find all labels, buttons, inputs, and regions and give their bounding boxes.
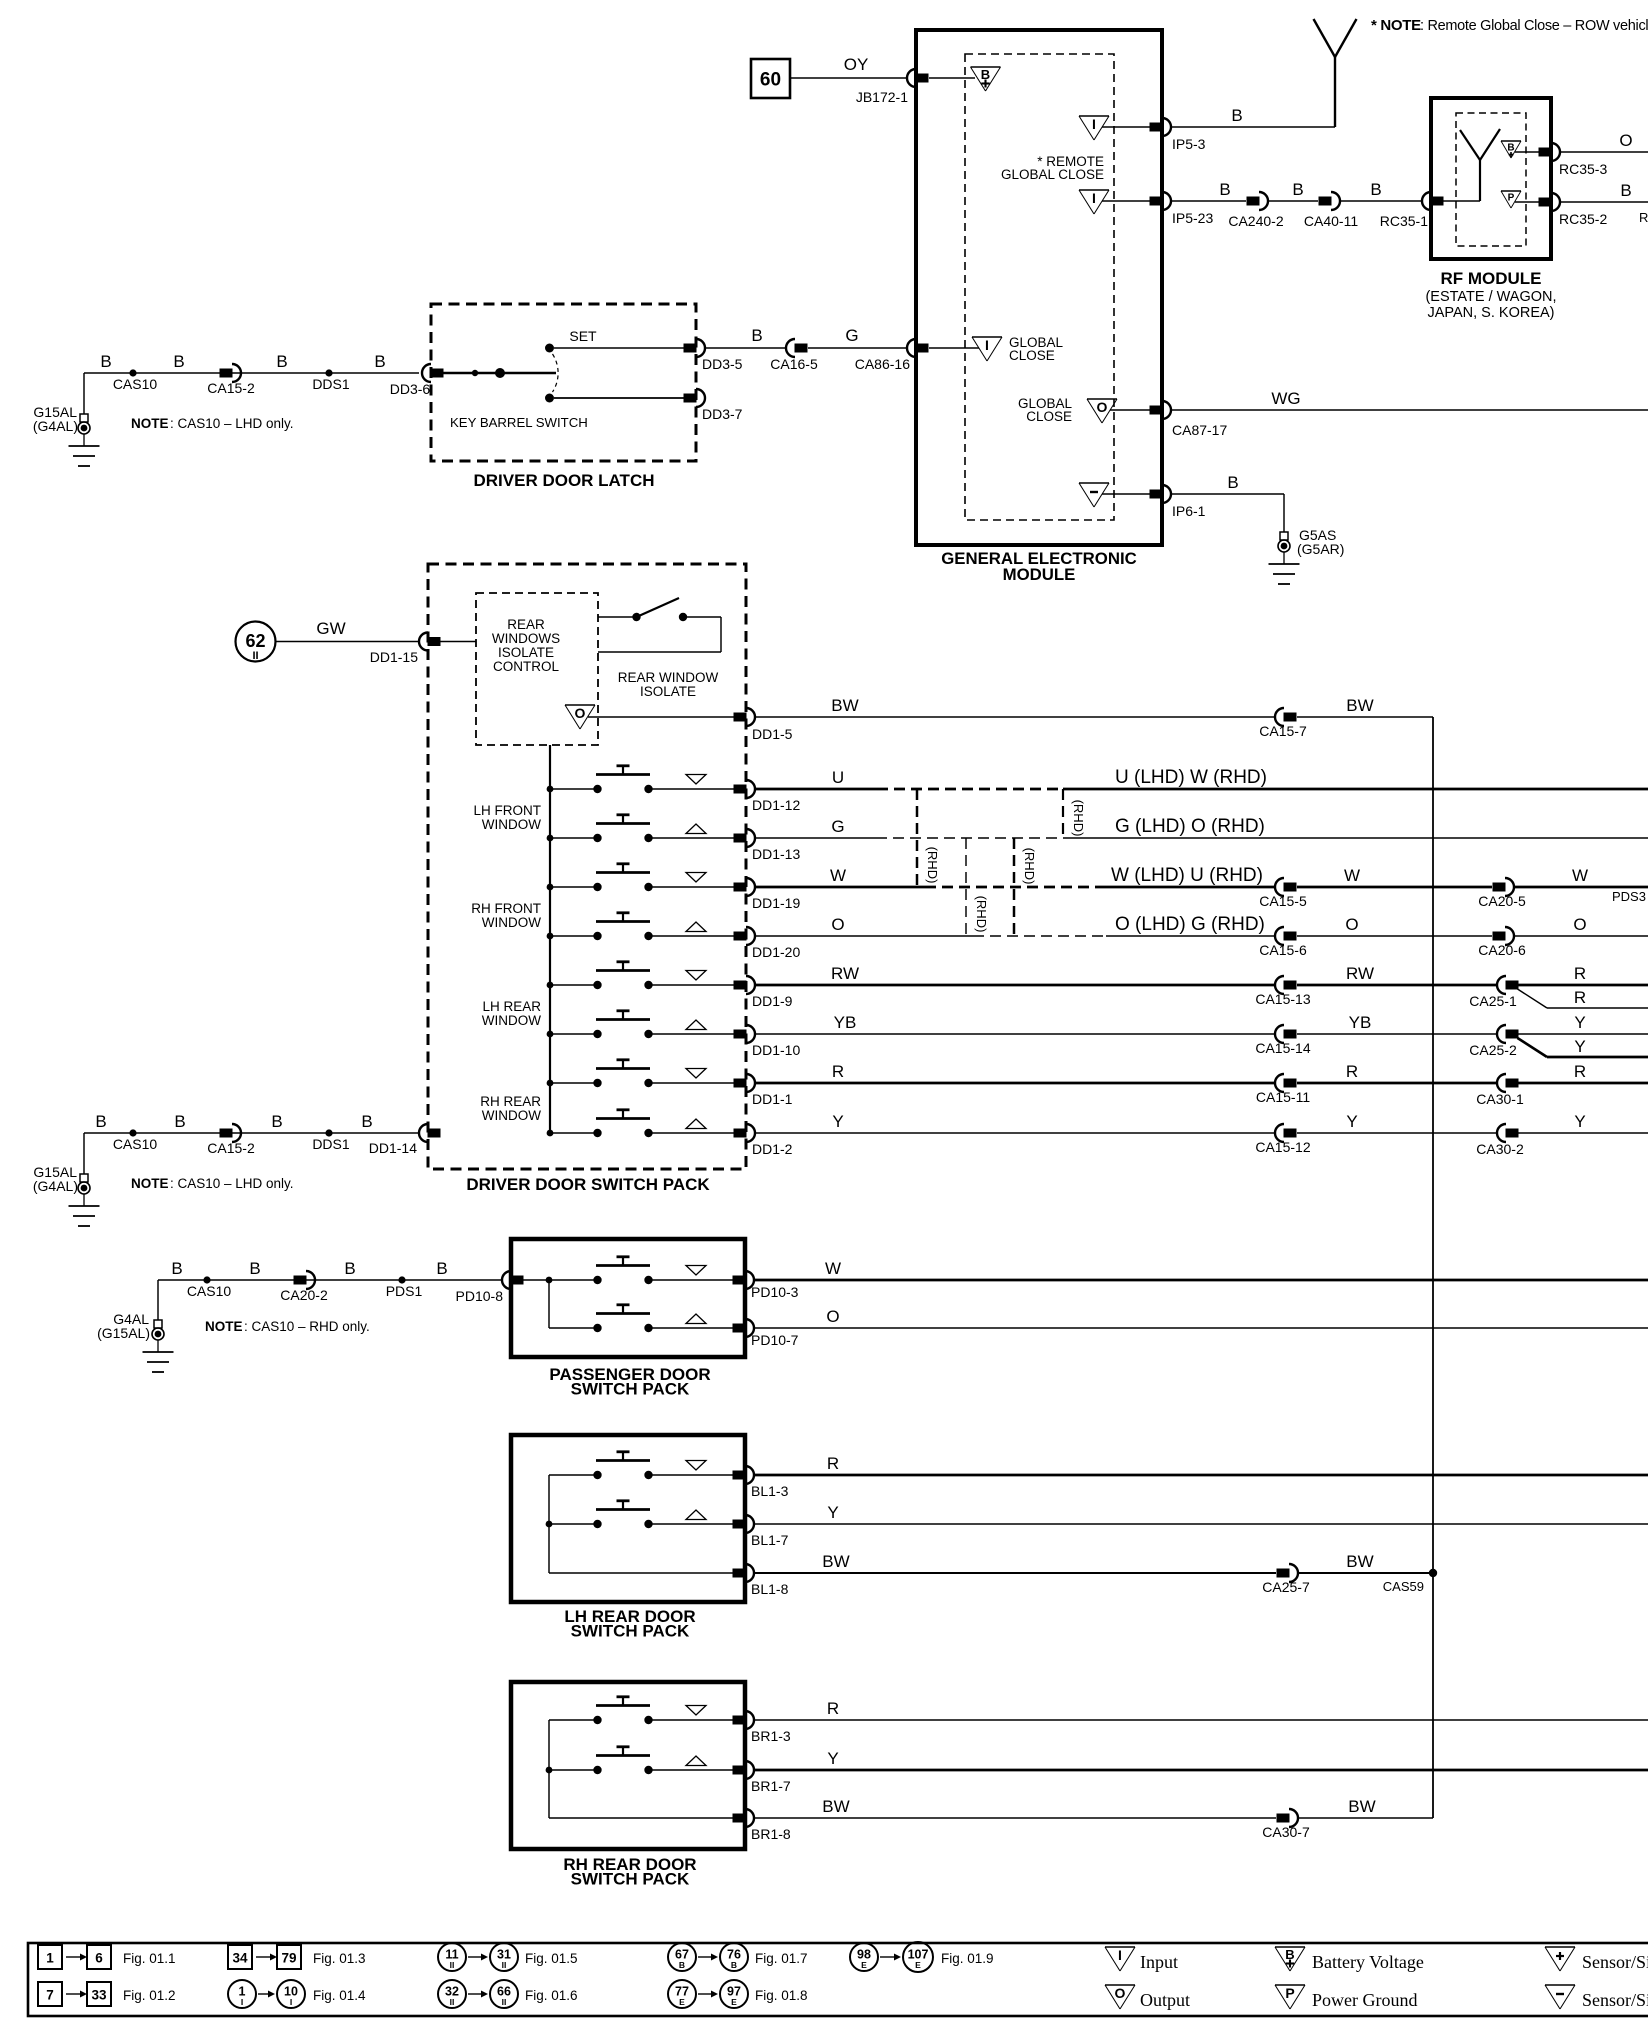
svg-text:WG: WG [1271, 389, 1300, 408]
svg-text:B: B [436, 1259, 447, 1278]
ground G4AL (G15AL) [154, 1320, 162, 1328]
svg-text:E: E [679, 1997, 685, 2007]
svg-text:Fig. 01.5: Fig. 01.5 [525, 1951, 578, 1966]
svg-text:CA25-7: CA25-7 [1262, 1579, 1310, 1595]
pin CA87-17 [1150, 406, 1163, 415]
ground G15AL (G4AL) [80, 414, 88, 422]
window switch row RW (DD1-9) [547, 982, 554, 989]
window switch row U (DD1-12) [547, 786, 554, 793]
svg-text:E: E [861, 1960, 867, 1970]
window switch row R (DD1-1) [547, 1080, 554, 1087]
svg-text:II: II [450, 1960, 455, 1970]
svg-text:O (LHD) G (RHD): O (LHD) G (RHD) [1115, 914, 1265, 935]
pin DD1-9 [734, 981, 747, 990]
svg-text:Y: Y [1574, 1037, 1585, 1056]
svg-text:Y: Y [827, 1749, 838, 1768]
svg-text:BL1-7: BL1-7 [751, 1532, 789, 1548]
svg-text:B: B [100, 352, 111, 371]
svg-text:BW: BW [831, 696, 858, 715]
wire O from RC35-3 [1560, 151, 1648, 153]
splice CAS10 passenger [203, 1276, 210, 1283]
svg-text:RW: RW [1346, 964, 1374, 983]
svg-text:PDS1: PDS1 [386, 1283, 423, 1299]
svg-text:R: R [827, 1699, 839, 1718]
svg-text:Output: Output [1140, 1990, 1190, 2010]
legend fig 01.1 [38, 1945, 62, 1969]
svg-text:DD3-5: DD3-5 [702, 356, 743, 372]
svg-text:Sensor/Si: Sensor/Si [1582, 1990, 1648, 2010]
svg-text:P: P [1285, 1985, 1294, 2001]
connector CA15-7 [1275, 708, 1284, 726]
svg-text:ISOLATE: ISOLATE [640, 684, 696, 699]
svg-text:I: I [1092, 190, 1096, 206]
connector CA15-13 [1275, 976, 1284, 994]
connector CA15-2 lower [220, 1129, 233, 1138]
svg-text:CAS10: CAS10 [187, 1283, 232, 1299]
svg-text:B: B [1292, 180, 1303, 199]
ground G5AS (G5AR) [1280, 532, 1288, 540]
RHD crossover dashed vertical 4 [1062, 789, 1064, 838]
wire BW from CA15-7 to bus [1297, 716, 1433, 718]
wire R from BR1-3 [754, 1719, 1648, 1721]
connector JB172-1 pin [907, 69, 916, 87]
svg-text:I: I [290, 1997, 292, 2007]
rear window isolate switch [598, 616, 633, 618]
svg-text:O: O [831, 915, 844, 934]
pin IP5-23 [1150, 197, 1163, 206]
pin DD1-10 [734, 1030, 747, 1039]
svg-text:W (LHD) U (RHD): W (LHD) U (RHD) [1111, 865, 1263, 886]
svg-text:I: I [1118, 1947, 1122, 1963]
LH rear window up switch [593, 1520, 601, 1528]
svg-text:(ESTATE / WAGON,: (ESTATE / WAGON, [1425, 289, 1556, 305]
wire B from CA240-2 to CA40-11 [1268, 200, 1318, 202]
svg-text:(RHD): (RHD) [1022, 848, 1037, 885]
svg-text:CONTROL: CONTROL [493, 659, 559, 674]
fuse circle 62 [236, 622, 276, 662]
connector CA20-6 [1493, 932, 1506, 941]
pin PD10-3 [733, 1276, 746, 1285]
svg-text:G (LHD) O (RHD): G (LHD) O (RHD) [1115, 816, 1265, 837]
svg-text:B: B [276, 352, 287, 371]
svg-text:BW: BW [822, 1797, 849, 1816]
connector CA16-5 [786, 339, 795, 357]
driver door latch dashed box [431, 304, 696, 461]
wire B from IP6-1 to ground G5AS [1172, 493, 1284, 495]
svg-text:R: R [1346, 1062, 1358, 1081]
svg-text:WINDOW: WINDOW [482, 915, 541, 930]
wire B from ground G4AL to PD10-8 [157, 1280, 159, 1320]
input symbol remote global close 2 [1079, 189, 1109, 191]
wire G from CA16-5 to CA86-16 [808, 347, 907, 349]
svg-text:Power Ground: Power Ground [1312, 1990, 1418, 2010]
connector CA40-11 [1319, 197, 1332, 206]
legend fig 01.2 [38, 1982, 62, 2006]
pin DD1-20 [734, 932, 747, 941]
svg-text:Fig. 01.1: Fig. 01.1 [123, 1951, 176, 1966]
window switch row O (DD1-20) [547, 933, 554, 940]
svg-text:CA25-1: CA25-1 [1469, 993, 1517, 1009]
wire B from IP5-3 to antenna [1172, 126, 1335, 128]
svg-text:B: B [249, 1259, 260, 1278]
svg-text:REAR WINDOW: REAR WINDOW [618, 670, 719, 685]
svg-text:CA15-14: CA15-14 [1255, 1040, 1310, 1056]
svg-text:IP5-3: IP5-3 [1172, 136, 1206, 152]
power ground symbol P in RF module [1501, 190, 1521, 192]
rear windows isolate control dashed box [476, 593, 598, 745]
svg-text:CA15-5: CA15-5 [1259, 893, 1307, 909]
svg-text:B: B [344, 1259, 355, 1278]
wire B from DD3-5 to CA16-5 [705, 347, 786, 349]
connector CA86-16 pin [907, 339, 916, 357]
connector CA25-7 [1277, 1569, 1290, 1578]
svg-text:BR1-3: BR1-3 [751, 1728, 791, 1744]
passenger pack internal wiring [523, 1279, 594, 1281]
svg-text:PD10-3: PD10-3 [751, 1284, 799, 1300]
wire R from CA25-1 to right edge [1518, 984, 1648, 987]
svg-text:B: B [95, 1112, 106, 1131]
svg-text:YB: YB [1349, 1013, 1372, 1032]
wire B from IP5-23 to CA240-2 [1172, 200, 1246, 202]
LH rear door switch pack box [511, 1435, 745, 1602]
connector CA15-11 [1275, 1074, 1284, 1092]
svg-text:R: R [832, 1062, 844, 1081]
svg-text:Fig. 01.8: Fig. 01.8 [755, 1988, 808, 2003]
svg-text:R: R [827, 1454, 839, 1473]
svg-text:ISOLATE: ISOLATE [498, 645, 554, 660]
svg-text:B: B [731, 1960, 737, 1970]
svg-text:II: II [252, 650, 258, 662]
svg-text:SWITCH PACK: SWITCH PACK [571, 1622, 690, 1641]
RH rear pack internal wiring [548, 1720, 550, 1818]
GEM inner dashed box [965, 54, 1114, 520]
splice CAS10 lower [129, 1129, 136, 1136]
legend fig 01.4 [228, 1980, 256, 2008]
wire R branch from CA25-1 [1518, 989, 1548, 1008]
svg-text:R: R [1639, 210, 1648, 225]
svg-text:PD10-7: PD10-7 [751, 1332, 799, 1348]
connector CA25-2 [1497, 1025, 1506, 1043]
svg-text:1: 1 [46, 1951, 54, 1966]
svg-text:P: P [1508, 193, 1515, 204]
splice PDS1 [398, 1276, 405, 1283]
general electronic module box [916, 30, 1162, 545]
wire W row [755, 886, 925, 889]
svg-text:REAR: REAR [507, 617, 545, 632]
connector CA30-2 [1497, 1124, 1506, 1142]
svg-text:GW: GW [316, 619, 345, 638]
junction CAS59 [1429, 1569, 1437, 1577]
legend box [28, 1943, 1648, 2016]
splice DDS1 [325, 369, 332, 376]
svg-text:CA15-2: CA15-2 [207, 1140, 255, 1156]
wire Y branch from CA25-2 [1518, 1038, 1548, 1057]
svg-text:SWITCH PACK: SWITCH PACK [571, 1870, 690, 1889]
pin BR1-3 [733, 1716, 746, 1725]
wire B from CA40-11 to RC35-1 [1340, 200, 1422, 202]
svg-text:CA30-2: CA30-2 [1476, 1141, 1524, 1157]
svg-text:Fig. 01.4: Fig. 01.4 [313, 1988, 366, 2003]
LH rear window down switch [593, 1471, 601, 1479]
wire BW from BR1-8 to CA30-7 [754, 1817, 1276, 1819]
connector CA30-1 [1497, 1074, 1506, 1092]
wire BW from DD1-5 to CA15-7 [755, 716, 1275, 718]
window switch row W (DD1-19) [547, 884, 554, 891]
wire BW from CA30-7 to bus [1298, 1817, 1433, 1819]
svg-text:RW: RW [831, 964, 859, 983]
svg-text:R: R [1574, 1062, 1586, 1081]
svg-text:W: W [830, 866, 846, 885]
svg-text:Fig. 01.2: Fig. 01.2 [123, 1988, 176, 2003]
window switch row Y (DD1-2) [547, 1130, 554, 1137]
connector DD3-7 pin [684, 394, 697, 403]
pin IP5-3 [1150, 123, 1163, 132]
svg-text:CA20-2: CA20-2 [280, 1287, 328, 1303]
wire U row [755, 788, 877, 791]
LH rear pack internal wiring [548, 1475, 550, 1573]
svg-text:CA15-6: CA15-6 [1259, 942, 1307, 958]
pin DD1-1 [734, 1079, 747, 1088]
svg-text:B: B [679, 1960, 685, 1970]
pin PD10-8 [502, 1271, 511, 1289]
svg-text:RC35-2: RC35-2 [1559, 211, 1607, 227]
RHD crossover dashed vertical 1 [916, 789, 919, 887]
svg-text:B: B [1227, 473, 1238, 492]
pin DD1-5 [734, 713, 747, 722]
svg-text:CA15-7: CA15-7 [1259, 723, 1307, 739]
connector DD3-6 pin [422, 364, 431, 382]
wire YB row [755, 1033, 1275, 1035]
svg-text:WINDOW: WINDOW [482, 1108, 541, 1123]
svg-text:CAS10: CAS10 [113, 376, 158, 392]
pin BR1-8 [733, 1814, 746, 1823]
svg-text:JAPAN, S. KOREA): JAPAN, S. KOREA) [1427, 305, 1554, 321]
svg-text:O: O [1097, 399, 1108, 415]
svg-text:I: I [1092, 116, 1096, 132]
svg-text:I: I [241, 1997, 243, 2007]
svg-text:II: II [502, 1997, 507, 2007]
svg-text:DD1-9: DD1-9 [752, 993, 793, 1009]
wire O row [755, 935, 973, 937]
connector CA20-5 [1493, 883, 1506, 892]
svg-text:KEY BARREL SWITCH: KEY BARREL SWITCH [450, 415, 588, 430]
svg-text:NOTE: NOTE [131, 416, 169, 431]
svg-text:BW: BW [822, 1552, 849, 1571]
svg-text:B: B [174, 1112, 185, 1131]
svg-text:WINDOW: WINDOW [482, 817, 541, 832]
svg-text:: CAS10 – RHD only.: : CAS10 – RHD only. [244, 1319, 370, 1334]
RF module antenna [1443, 200, 1480, 202]
svg-text:CA15-13: CA15-13 [1255, 991, 1310, 1007]
svg-text:(G4AL): (G4AL) [33, 418, 78, 434]
svg-text:* NOTE: * NOTE [1371, 17, 1421, 34]
battery voltage symbol B+ in GEM [929, 77, 975, 79]
svg-text:DD1-2: DD1-2 [752, 1141, 793, 1157]
svg-text:CAS59: CAS59 [1383, 1579, 1424, 1594]
svg-text:R: R [1574, 988, 1586, 1007]
legend sensor return minus symbol [1545, 1984, 1575, 1986]
wire O to right edge [1515, 935, 1648, 937]
svg-text:WINDOW: WINDOW [482, 1013, 541, 1028]
wire B from ground G15AL to DD3-6 [83, 373, 85, 414]
passenger window up switch [593, 1324, 601, 1332]
svg-text:BL1-8: BL1-8 [751, 1581, 789, 1597]
pin IP6-1 [1150, 490, 1163, 499]
svg-text:: Remote Global Close – ROW ve: : Remote Global Close – ROW vehicles on [1420, 18, 1648, 34]
switch bus vertical [549, 745, 551, 1133]
legend sensor supply plus symbol [1545, 1946, 1575, 1948]
svg-text:O: O [1345, 915, 1358, 934]
svg-text:R: R [1574, 964, 1586, 983]
svg-text:CA25-2: CA25-2 [1469, 1042, 1517, 1058]
connector CA20-2 [294, 1276, 307, 1285]
svg-text:Fig. 01.9: Fig. 01.9 [941, 1951, 994, 1966]
svg-text:DD1-5: DD1-5 [752, 726, 793, 742]
legend fig 01.3 [228, 1945, 252, 1969]
svg-text:B: B [1219, 180, 1230, 199]
wire Y from CA25-2 to right edge [1518, 1033, 1648, 1035]
RH rear window down switch [593, 1716, 601, 1724]
pin RC35-2 [1539, 198, 1552, 207]
antenna [1334, 57, 1336, 127]
wire BW from BL1-8 to CA25-7 [754, 1572, 1276, 1574]
svg-text:IP6-1: IP6-1 [1172, 503, 1206, 519]
wire BW from CA25-7 to CAS59 [1298, 1572, 1433, 1574]
RH rear door switch pack box [511, 1682, 745, 1849]
pin DD1-2 [734, 1129, 747, 1138]
svg-text:O: O [1619, 131, 1632, 150]
RHD crossover dashed vertical 3 [1013, 838, 1016, 936]
passenger door switch pack box [511, 1239, 745, 1357]
wire O to CA20-6 [1297, 935, 1492, 937]
splice DDS1 lower [325, 1129, 332, 1136]
window switch row G (DD1-13) [547, 835, 554, 842]
svg-text:B: B [751, 326, 762, 345]
wire W from PD10-3 [754, 1279, 1648, 1282]
svg-text:G: G [845, 326, 858, 345]
svg-text:U (LHD) W (RHD): U (LHD) W (RHD) [1115, 767, 1267, 788]
key barrel switch lower contact [545, 394, 554, 403]
RF module box [1431, 98, 1551, 259]
svg-text:Fig. 01.6: Fig. 01.6 [525, 1988, 578, 2003]
svg-text:33: 33 [91, 1988, 107, 2003]
passenger window down switch [593, 1276, 601, 1284]
RHD crossover dashed vertical 2 [965, 838, 967, 936]
connector CA15-12 [1275, 1124, 1284, 1142]
svg-text:O: O [826, 1307, 839, 1326]
legend power ground symbol [1275, 1984, 1305, 1986]
connector CA240-2 [1247, 197, 1260, 206]
connector CA15-6 [1275, 927, 1284, 945]
svg-text:CA15-11: CA15-11 [1256, 1089, 1310, 1105]
pin RC35-3 [1539, 148, 1552, 157]
svg-text:NOTE: NOTE [131, 1176, 169, 1191]
connector CA25-1 [1497, 976, 1506, 994]
svg-text:CLOSE: CLOSE [1009, 348, 1055, 363]
svg-text:: CAS10 – LHD only.: : CAS10 – LHD only. [170, 1176, 294, 1191]
connector DD1-15 pin [419, 633, 428, 651]
svg-text:SWITCH PACK: SWITCH PACK [571, 1380, 690, 1399]
svg-text:DD1-13: DD1-13 [752, 846, 800, 862]
svg-text:CAS10: CAS10 [113, 1136, 158, 1152]
svg-text:IP5-23: IP5-23 [1172, 210, 1213, 226]
svg-text:II: II [450, 1997, 455, 2007]
svg-text:BW: BW [1348, 1797, 1375, 1816]
svg-text:CA16-5: CA16-5 [770, 356, 818, 372]
svg-text:RF MODULE: RF MODULE [1440, 269, 1541, 288]
wire W to right edge [1515, 886, 1648, 889]
svg-text:DD1-15: DD1-15 [370, 649, 418, 665]
legend fig 01.8 [668, 1980, 696, 2008]
svg-text:(G5AR): (G5AR) [1297, 541, 1344, 557]
legend output symbol [1105, 1984, 1135, 1986]
svg-text:CA30-7: CA30-7 [1262, 1824, 1310, 1840]
legend input symbol [1105, 1946, 1135, 1948]
input symbol remote global close 1 [1079, 115, 1109, 117]
svg-text:LH REAR: LH REAR [482, 999, 541, 1014]
pin RC35-1 [1422, 192, 1431, 210]
svg-text:RH REAR: RH REAR [480, 1094, 541, 1109]
svg-text:BW: BW [1346, 1552, 1373, 1571]
svg-text:(RHD): (RHD) [974, 896, 989, 933]
svg-text:U: U [832, 768, 844, 787]
pin BL1-8 [733, 1569, 746, 1578]
svg-text:: CAS10 – LHD only.: : CAS10 – LHD only. [170, 416, 294, 431]
svg-text:PDS3: PDS3 [1612, 889, 1646, 904]
connector CA15-5 [1275, 878, 1284, 896]
svg-text:(G15AL): (G15AL) [97, 1325, 150, 1341]
svg-text:79: 79 [281, 1951, 296, 1966]
svg-text:7: 7 [46, 1988, 54, 2003]
output symbol rear window isolate [565, 704, 595, 706]
svg-text:Fig. 01.3: Fig. 01.3 [313, 1951, 366, 1966]
svg-text:Input: Input [1140, 1952, 1178, 1972]
svg-text:JB172-1: JB172-1 [856, 89, 908, 105]
input symbol global close [929, 347, 979, 349]
svg-text:CA86-16: CA86-16 [855, 356, 910, 372]
svg-text:CA20-6: CA20-6 [1478, 942, 1526, 958]
svg-text:I: I [985, 337, 989, 353]
svg-text:B: B [271, 1112, 282, 1131]
svg-text:G: G [831, 817, 844, 836]
driver door switch pack dashed box [428, 564, 746, 1169]
wire OY from 60 to JB172-1 [790, 77, 907, 79]
RH rear window up switch [593, 1766, 601, 1774]
svg-text:CA87-17: CA87-17 [1172, 422, 1227, 438]
svg-text:CA40-11: CA40-11 [1304, 213, 1358, 229]
wire W to CA20-5 [1297, 886, 1492, 889]
wire R row [755, 1082, 1275, 1085]
svg-text:DD3-6: DD3-6 [390, 381, 431, 397]
connector CA15-2 [220, 369, 233, 378]
connector CA15-14 [1275, 1025, 1284, 1043]
wire R from BL1-3 [754, 1474, 1648, 1477]
svg-text:Y: Y [832, 1112, 843, 1131]
svg-text:DD1-12: DD1-12 [752, 797, 800, 813]
svg-text:(G4AL): (G4AL) [33, 1178, 78, 1194]
svg-text:CLOSE: CLOSE [1026, 409, 1072, 424]
pin BR1-7 [733, 1766, 746, 1775]
svg-text:DD1-10: DD1-10 [752, 1042, 800, 1058]
svg-text:DDS1: DDS1 [312, 376, 350, 392]
legend fig 01.6 [438, 1980, 466, 2008]
svg-text:E: E [915, 1960, 921, 1970]
ground G15AL (G4AL) lower [80, 1174, 88, 1182]
key barrel switch SET contact [545, 344, 554, 353]
pin BL1-3 [733, 1471, 746, 1480]
pin DD1-14 [419, 1124, 428, 1142]
svg-text:B: B [1620, 181, 1631, 200]
